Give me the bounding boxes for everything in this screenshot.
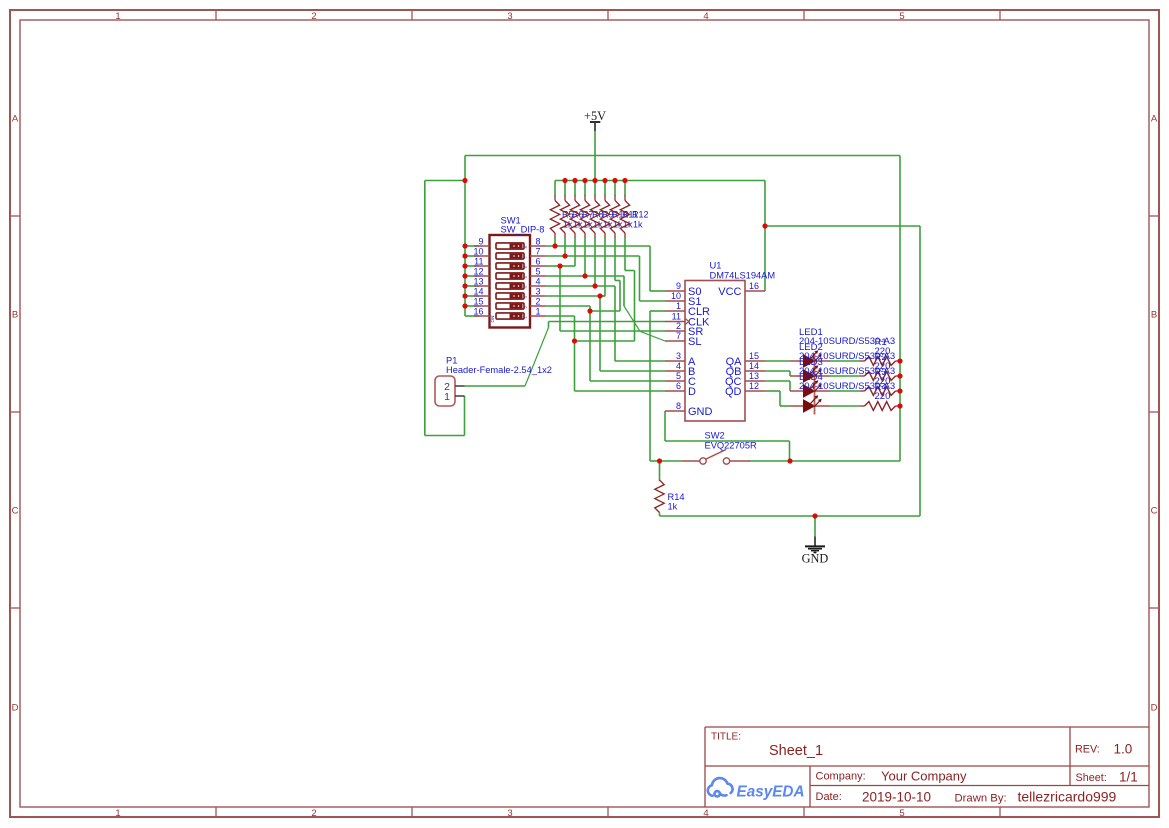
wire far right drop [919,226,921,516]
IC U1 body [685,281,745,422]
resistor R11 [610,195,619,238]
svg-text:4: 4 [703,11,708,22]
svg-text:Header-Female-2.54_1x2: Header-Female-2.54_1x2 [446,365,552,375]
resistor R1 [860,357,900,366]
svg-text:GND: GND [802,552,829,566]
wire CLR to R14 [650,460,660,462]
wire QB jog [789,371,791,376]
wire SW1 pin9 left [465,245,479,247]
resistor R3 [860,387,900,396]
wire QA out [765,360,790,362]
wire R6 top [564,181,566,197]
SW1 pin 8 (right) [530,245,546,247]
wire QC jog [789,381,791,391]
wire VCC branch [765,225,920,227]
svg-text:2: 2 [311,808,316,819]
wire SW1 pin7 row [546,255,640,257]
junction SW1 pin11 [462,263,467,268]
wire LED3 to R3 [830,390,860,392]
wire +5V bus [555,180,765,182]
svg-text:2: 2 [311,11,316,22]
wire CLK row [549,321,666,323]
wire QD jog [779,391,781,406]
wire R8 top [584,181,586,197]
svg-text:8: 8 [676,401,681,411]
wire B in [600,370,665,372]
resistor R12 [620,195,629,238]
SW1 switch actuator 4 [496,273,528,279]
svg-text:5: 5 [524,276,528,278]
svg-text:3: 3 [536,287,541,297]
wire R12 jog c [575,340,635,342]
svg-text:2019-10-10: 2019-10-10 [862,790,931,805]
wire S0 drop [649,246,651,291]
wire P1 pin1 drop [464,396,466,436]
U1 pin 2 SR [665,330,685,332]
svg-text:11: 11 [672,312,681,322]
SW1 switch actuator 6 [496,293,528,299]
ground GND symbol [802,537,829,566]
svg-text:16: 16 [749,281,759,291]
svg-text:R14: R14 [668,492,685,502]
junction bus R6 [562,178,567,183]
wire SW1 pin11 left [465,265,479,267]
SW1 pin 4 (right) [530,285,546,287]
wire R5 bottom [554,238,556,247]
svg-text:8: 8 [524,246,528,248]
resistor R4 [860,402,900,411]
wire GND8 down [789,441,791,461]
svg-text:3: 3 [676,351,681,361]
frame column numbers top [115,11,904,22]
U1 pin 1 CLR [665,310,685,312]
resistor R5 [550,195,559,238]
wire R9 bottom [594,238,596,287]
svg-text:Sheet:: Sheet: [1076,772,1107,784]
svg-text:EVQ22705R: EVQ22705R [705,441,757,451]
svg-text:12: 12 [749,381,759,391]
wire R11 top [614,181,616,197]
U1 pin 10 S1 [665,300,685,302]
SW1 pin 1 (right) [530,315,546,317]
wire R12 bottom [624,238,626,271]
wire A drop [614,286,616,361]
svg-text:SL: SL [688,336,701,348]
svg-text:ON: ON [490,316,495,323]
wire R11 jog c [590,310,620,312]
U1 CLK clock mark [685,318,689,324]
junction R12 row1 [572,338,577,343]
frame row letters right [1151,114,1158,714]
junction SW1 pin12 [462,273,467,278]
svg-text:15: 15 [749,351,759,361]
title block borders [705,727,1149,807]
junction SW1 pin14 [462,293,467,298]
svg-text:3: 3 [524,296,528,298]
wire P1 pin2 diagonal [525,328,549,387]
svg-text:220: 220 [875,391,891,402]
junction SW1 pin9 [462,243,467,248]
wire C drop [589,306,591,381]
svg-text:B: B [12,310,18,321]
wire R14 bottom stub [659,513,661,517]
junction R1 [897,358,902,363]
wire SW1 pin3 row [546,295,606,297]
wire SR in [560,330,665,332]
SW1 pin 11 (left) [474,265,490,267]
svg-text:7: 7 [676,331,681,341]
wire R14 top [659,461,661,480]
U1 pin 12 QD [745,390,765,392]
wire QB out [765,370,790,372]
U1 pin 16 VCC [745,290,765,292]
junction SW1 pin10 [462,253,467,258]
wire S1 in [640,300,666,302]
LED LED1 [790,350,830,369]
frame column ticks bottom [216,807,1000,817]
svg-text:2: 2 [536,297,541,307]
junction GND [812,513,817,518]
SW1 pin 12 (left) [474,275,490,277]
wire R11 jog b [619,281,621,312]
SW1 pin 10 (left) [474,255,490,257]
frame column numbers bottom [115,808,904,819]
wire SR drop [559,266,561,331]
junction R7 row6 [557,263,562,268]
svg-text:5: 5 [899,808,904,819]
svg-text:5: 5 [536,267,541,277]
svg-text:13: 13 [749,371,759,381]
svg-text:1.0: 1.0 [1114,742,1133,757]
SW1 pin 5 (right) [530,275,546,277]
SW1 pin 9 (left) [474,245,490,247]
svg-text:15: 15 [473,297,483,307]
wire SW1 pin6 row [546,265,561,267]
resistor R7 [570,195,579,238]
wire C in [590,380,665,382]
svg-text:14: 14 [473,287,483,297]
svg-text:VCC: VCC [718,286,741,298]
svg-text:3: 3 [507,808,512,819]
svg-text:2: 2 [676,321,681,331]
SW1 switch actuator 7 [496,303,528,309]
wire S0 in [650,290,665,292]
svg-text:7: 7 [536,247,541,257]
frame column ticks top [216,10,1000,20]
svg-text:1k: 1k [633,220,643,230]
svg-text:B: B [1151,310,1157,321]
svg-text:1: 1 [524,316,528,318]
resistor R6 [560,195,569,238]
junction R2 [897,373,902,378]
U1 pin 8 GND [665,410,685,412]
svg-text:8: 8 [536,237,541,247]
U1 pin 9 S0 [665,290,685,292]
wire GND stub [814,516,816,537]
wire D drop [574,316,576,391]
svg-text:4: 4 [676,361,681,371]
svg-text:12: 12 [473,267,483,277]
junction bus R10 [602,178,607,183]
svg-text:U1: U1 [710,261,722,271]
junction R8 row5 [582,273,587,278]
junction bus R7 [572,178,577,183]
svg-text:TITLE:: TITLE: [711,732,741,743]
wire R12 top [624,181,626,197]
wire left drop [424,181,426,436]
frame row ticks right [1149,216,1159,608]
P1 pin 2 [455,385,465,387]
junction SW1 pin15 [462,303,467,308]
wire R7 top [574,181,576,197]
wire QD run [780,405,790,407]
svg-text:D: D [12,703,19,714]
svg-text:3: 3 [507,11,512,22]
junction bus R12 [622,178,627,183]
wire A in [615,360,665,362]
svg-text:C: C [12,506,19,517]
junction R3 [897,388,902,393]
svg-text:9: 9 [676,281,681,291]
EasyEDA logo cloud [708,778,733,796]
svg-text:C: C [1151,506,1158,517]
junction VCC branch [762,223,767,228]
svg-text:EasyEDA: EasyEDA [737,784,805,801]
wire +5V drop [594,131,596,181]
svg-text:2: 2 [524,306,528,308]
wire stub to left rail [425,180,465,182]
svg-text:5: 5 [899,11,904,22]
wire QD out [765,390,780,392]
wire SW1 pin15 left [465,305,479,307]
svg-text:16: 16 [473,307,483,317]
U1 pin 13 QC [745,380,765,382]
junction bus R8 [582,178,587,183]
svg-text:Sheet_1: Sheet_1 [769,743,823,759]
wire R12 jog b [634,271,636,342]
junction bus R11 [612,178,617,183]
svg-text:GND: GND [688,406,713,418]
wire R6 bottom [564,238,566,257]
wire S1 drop [639,256,641,301]
svg-text:1: 1 [676,301,681,311]
wire QC out [765,380,790,382]
svg-text:14: 14 [749,361,759,371]
wire LED1 to R1 [830,360,860,362]
SW1 pin 13 (left) [474,285,490,287]
SW1 switch actuator 1 [496,243,528,249]
svg-text:SW2: SW2 [705,430,725,440]
wire VCC riser [764,181,766,292]
wire R12 jog a [625,270,635,272]
wire R10 top [604,181,606,197]
svg-text:A: A [1151,114,1158,125]
resistor R14 [655,480,664,513]
LED LED2 [790,365,830,384]
svg-text:Your Company: Your Company [881,769,967,784]
svg-text:1: 1 [444,391,450,403]
junction R5 row8 [552,243,557,248]
wire R5 top [554,181,556,197]
wire SW1 pin12 left [465,275,479,277]
wire SW1 pin1 row [546,315,575,317]
switch SW2 [682,449,750,464]
junction R10 row3 [597,293,602,298]
U1 pin 7 SL [665,340,685,342]
wire P1 pin2 run [465,385,526,387]
svg-text:1k: 1k [668,502,678,512]
svg-text:tellezricardo999: tellezricardo999 [1018,789,1117,805]
junction SW2 right [787,458,792,463]
resistor R9 [590,195,599,238]
U1 pin 6 D [665,390,685,392]
resistor R2 [860,372,900,381]
svg-text:10: 10 [671,291,681,301]
svg-text:P1: P1 [446,356,457,366]
SW1 pin 15 (left) [474,305,490,307]
svg-text:R12: R12 [632,210,649,220]
P1 pin 1 [455,395,465,397]
wire ground row [660,515,921,517]
wire SW1 pin13 left [465,285,479,287]
switch SW1 body [490,235,531,328]
U1 pin 5 C [665,380,685,382]
svg-text:9: 9 [478,237,483,247]
svg-text:10: 10 [473,247,483,257]
wire SW1 pin10 left [465,255,479,257]
wire R11 jog a [615,280,620,282]
resistor R10 [600,195,609,238]
svg-text:5: 5 [676,371,681,381]
SW1 pin 6 (right) [530,265,546,267]
connector P1 body [435,376,455,406]
SW1 switch actuator 3 [496,263,528,269]
LED LED4 [790,395,830,414]
SW1 pin 14 (left) [474,295,490,297]
U1 pin 4 B [665,370,685,372]
svg-text:A: A [12,114,19,125]
U1 pin 3 A [665,360,685,362]
wire R10 link [600,295,605,297]
wire SW1 pin8 row [546,245,651,247]
wire SW1 pin16 left [465,315,479,317]
svg-text:6: 6 [536,257,541,267]
svg-text:SW_DIP-8: SW_DIP-8 [501,225,545,235]
SW1 pin 2 (right) [530,305,546,307]
svg-text:QD: QD [725,386,742,398]
svg-text:1: 1 [115,808,120,819]
svg-text:Date:: Date: [816,791,842,803]
SW1 pin 3 (right) [530,295,546,297]
wire D in [575,390,666,392]
svg-text:1: 1 [536,307,541,317]
svg-text:4: 4 [524,286,528,288]
wire rail top [465,155,900,157]
junction left rail / stub [462,178,467,183]
SW1 switch actuator 2 [496,253,528,259]
svg-text:+5V: +5V [584,109,606,123]
svg-text:4: 4 [703,808,708,819]
junction R6 row7 [562,253,567,258]
resistor R8 [580,195,589,238]
junction bus +5V [592,178,597,183]
svg-text:1: 1 [115,11,120,22]
wire LED4 to R4 [830,405,860,407]
SW1 pin 16 (left) [474,315,490,317]
wire SW1 left rail [464,156,466,317]
wire SW1 pin4 row [546,285,616,287]
U1 pin 14 QB [745,370,765,372]
wire CLR drop [649,311,651,461]
power +5V symbol [584,109,606,131]
wire SL drop [623,276,625,306]
SW1 switch actuator 8 [496,313,528,319]
wire CLK hook [548,322,550,328]
wire R8 bottom [584,238,586,277]
svg-text:DM74LS194AM: DM74LS194AM [710,270,776,280]
junction R14 top [657,458,662,463]
wire CLR in [650,310,665,312]
svg-text:Company:: Company: [816,771,866,783]
svg-text:Drawn By:: Drawn By: [955,793,1007,805]
junction R9 row4 [592,283,597,288]
U1 pin 15 QA [745,360,765,362]
junction R11 row2 [587,308,592,313]
frame row ticks left [10,216,20,608]
wire R10 bottom [604,238,606,297]
wire P1 bottom [425,435,465,437]
svg-text:6: 6 [676,381,681,391]
LED LED3 [790,380,830,399]
SW1 switch actuator 5 [496,283,528,289]
wire SL diagonal a [624,306,640,331]
svg-text:6: 6 [524,266,528,268]
SW1 pin 7 (right) [530,255,546,257]
wire GND8 drop [664,411,666,441]
wire right drop [899,156,901,462]
wire SL diagonal b [640,331,665,341]
wire SW2 left [660,460,683,462]
wire R9 top [594,181,596,197]
wire SW1 pin2 row [546,305,591,307]
svg-text:11: 11 [474,257,483,267]
svg-text:D: D [1151,703,1158,714]
wire SW1 pin5 row [546,275,625,277]
svg-text:REV:: REV: [1075,744,1100,756]
svg-text:7: 7 [524,256,528,258]
svg-text:4: 4 [536,277,541,287]
wire SW1 pin14 left [465,295,479,297]
svg-text:1/1: 1/1 [1119,770,1138,785]
U1 pin 11 CLK [665,321,685,323]
wire LED2 to R2 [830,375,860,377]
wire B drop [599,296,601,371]
junction SW1 pin13 [462,283,467,288]
wire GND8 run [665,440,790,442]
wire R11 bottom [614,238,616,281]
svg-text:D: D [688,386,696,398]
junction R4 [897,403,902,408]
wire SW2 right [749,460,900,462]
wire R7 bottom [574,238,576,267]
frame row letters left [12,114,19,714]
svg-text:13: 13 [473,277,483,287]
wire R7 link [560,265,575,267]
